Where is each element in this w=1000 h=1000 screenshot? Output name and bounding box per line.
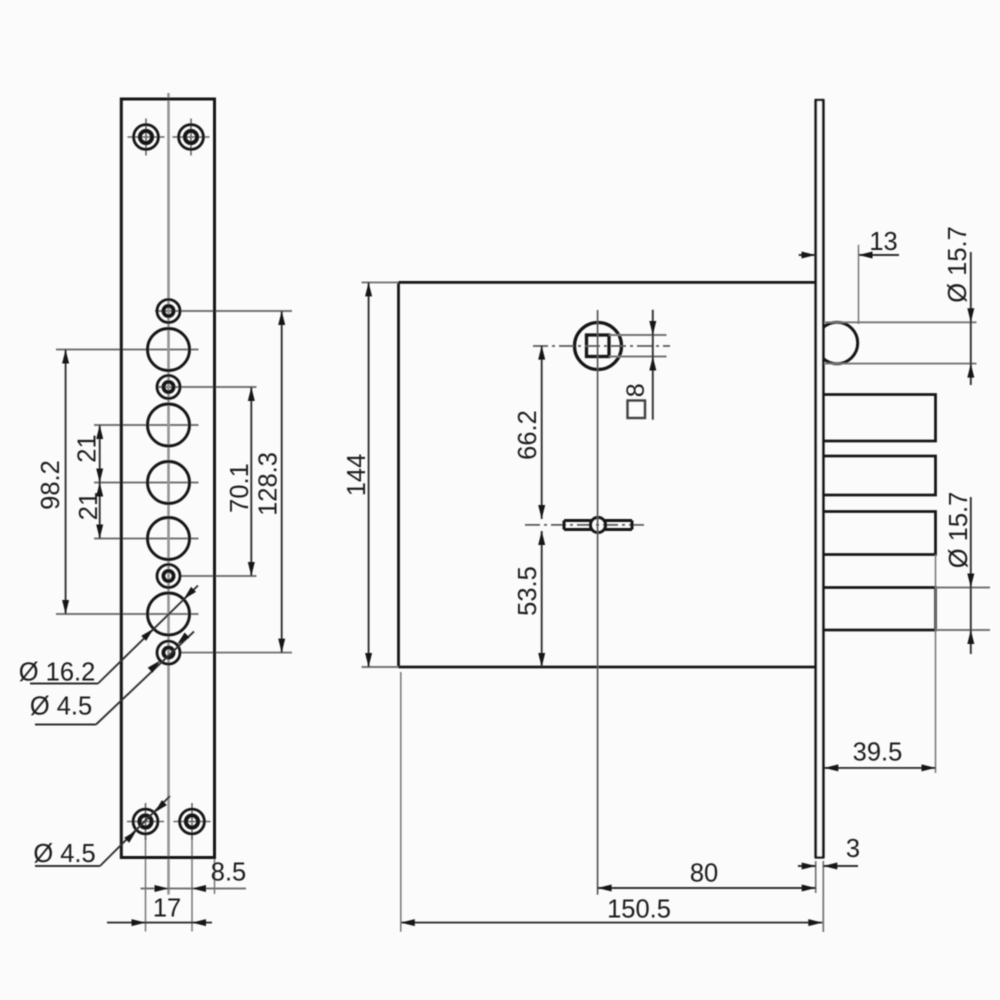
svg-text:70.1: 70.1 [226, 463, 254, 513]
svg-text:8.5: 8.5 [211, 858, 246, 886]
svg-text:144: 144 [343, 454, 371, 497]
svg-text:17: 17 [153, 894, 181, 922]
svg-text:39.5: 39.5 [853, 738, 903, 766]
svg-text:13: 13 [869, 228, 897, 256]
svg-text:Ø 15.7: Ø 15.7 [945, 492, 973, 569]
svg-text:128.3: 128.3 [254, 452, 282, 516]
svg-text:3: 3 [846, 835, 860, 863]
svg-text:Ø 4.5: Ø 4.5 [30, 692, 92, 720]
svg-text:66.2: 66.2 [514, 410, 542, 460]
svg-text:21: 21 [73, 434, 101, 462]
svg-text:53.5: 53.5 [514, 566, 542, 616]
svg-text:Ø 15.7: Ø 15.7 [944, 226, 972, 303]
svg-text:150.5: 150.5 [607, 895, 671, 923]
svg-text:Ø 4.5: Ø 4.5 [33, 840, 95, 868]
svg-text:21: 21 [75, 492, 103, 520]
svg-text:8: 8 [622, 383, 650, 397]
svg-text:Ø 16.2: Ø 16.2 [19, 658, 96, 686]
svg-text:98.2: 98.2 [37, 460, 65, 510]
svg-text:80: 80 [690, 859, 718, 887]
